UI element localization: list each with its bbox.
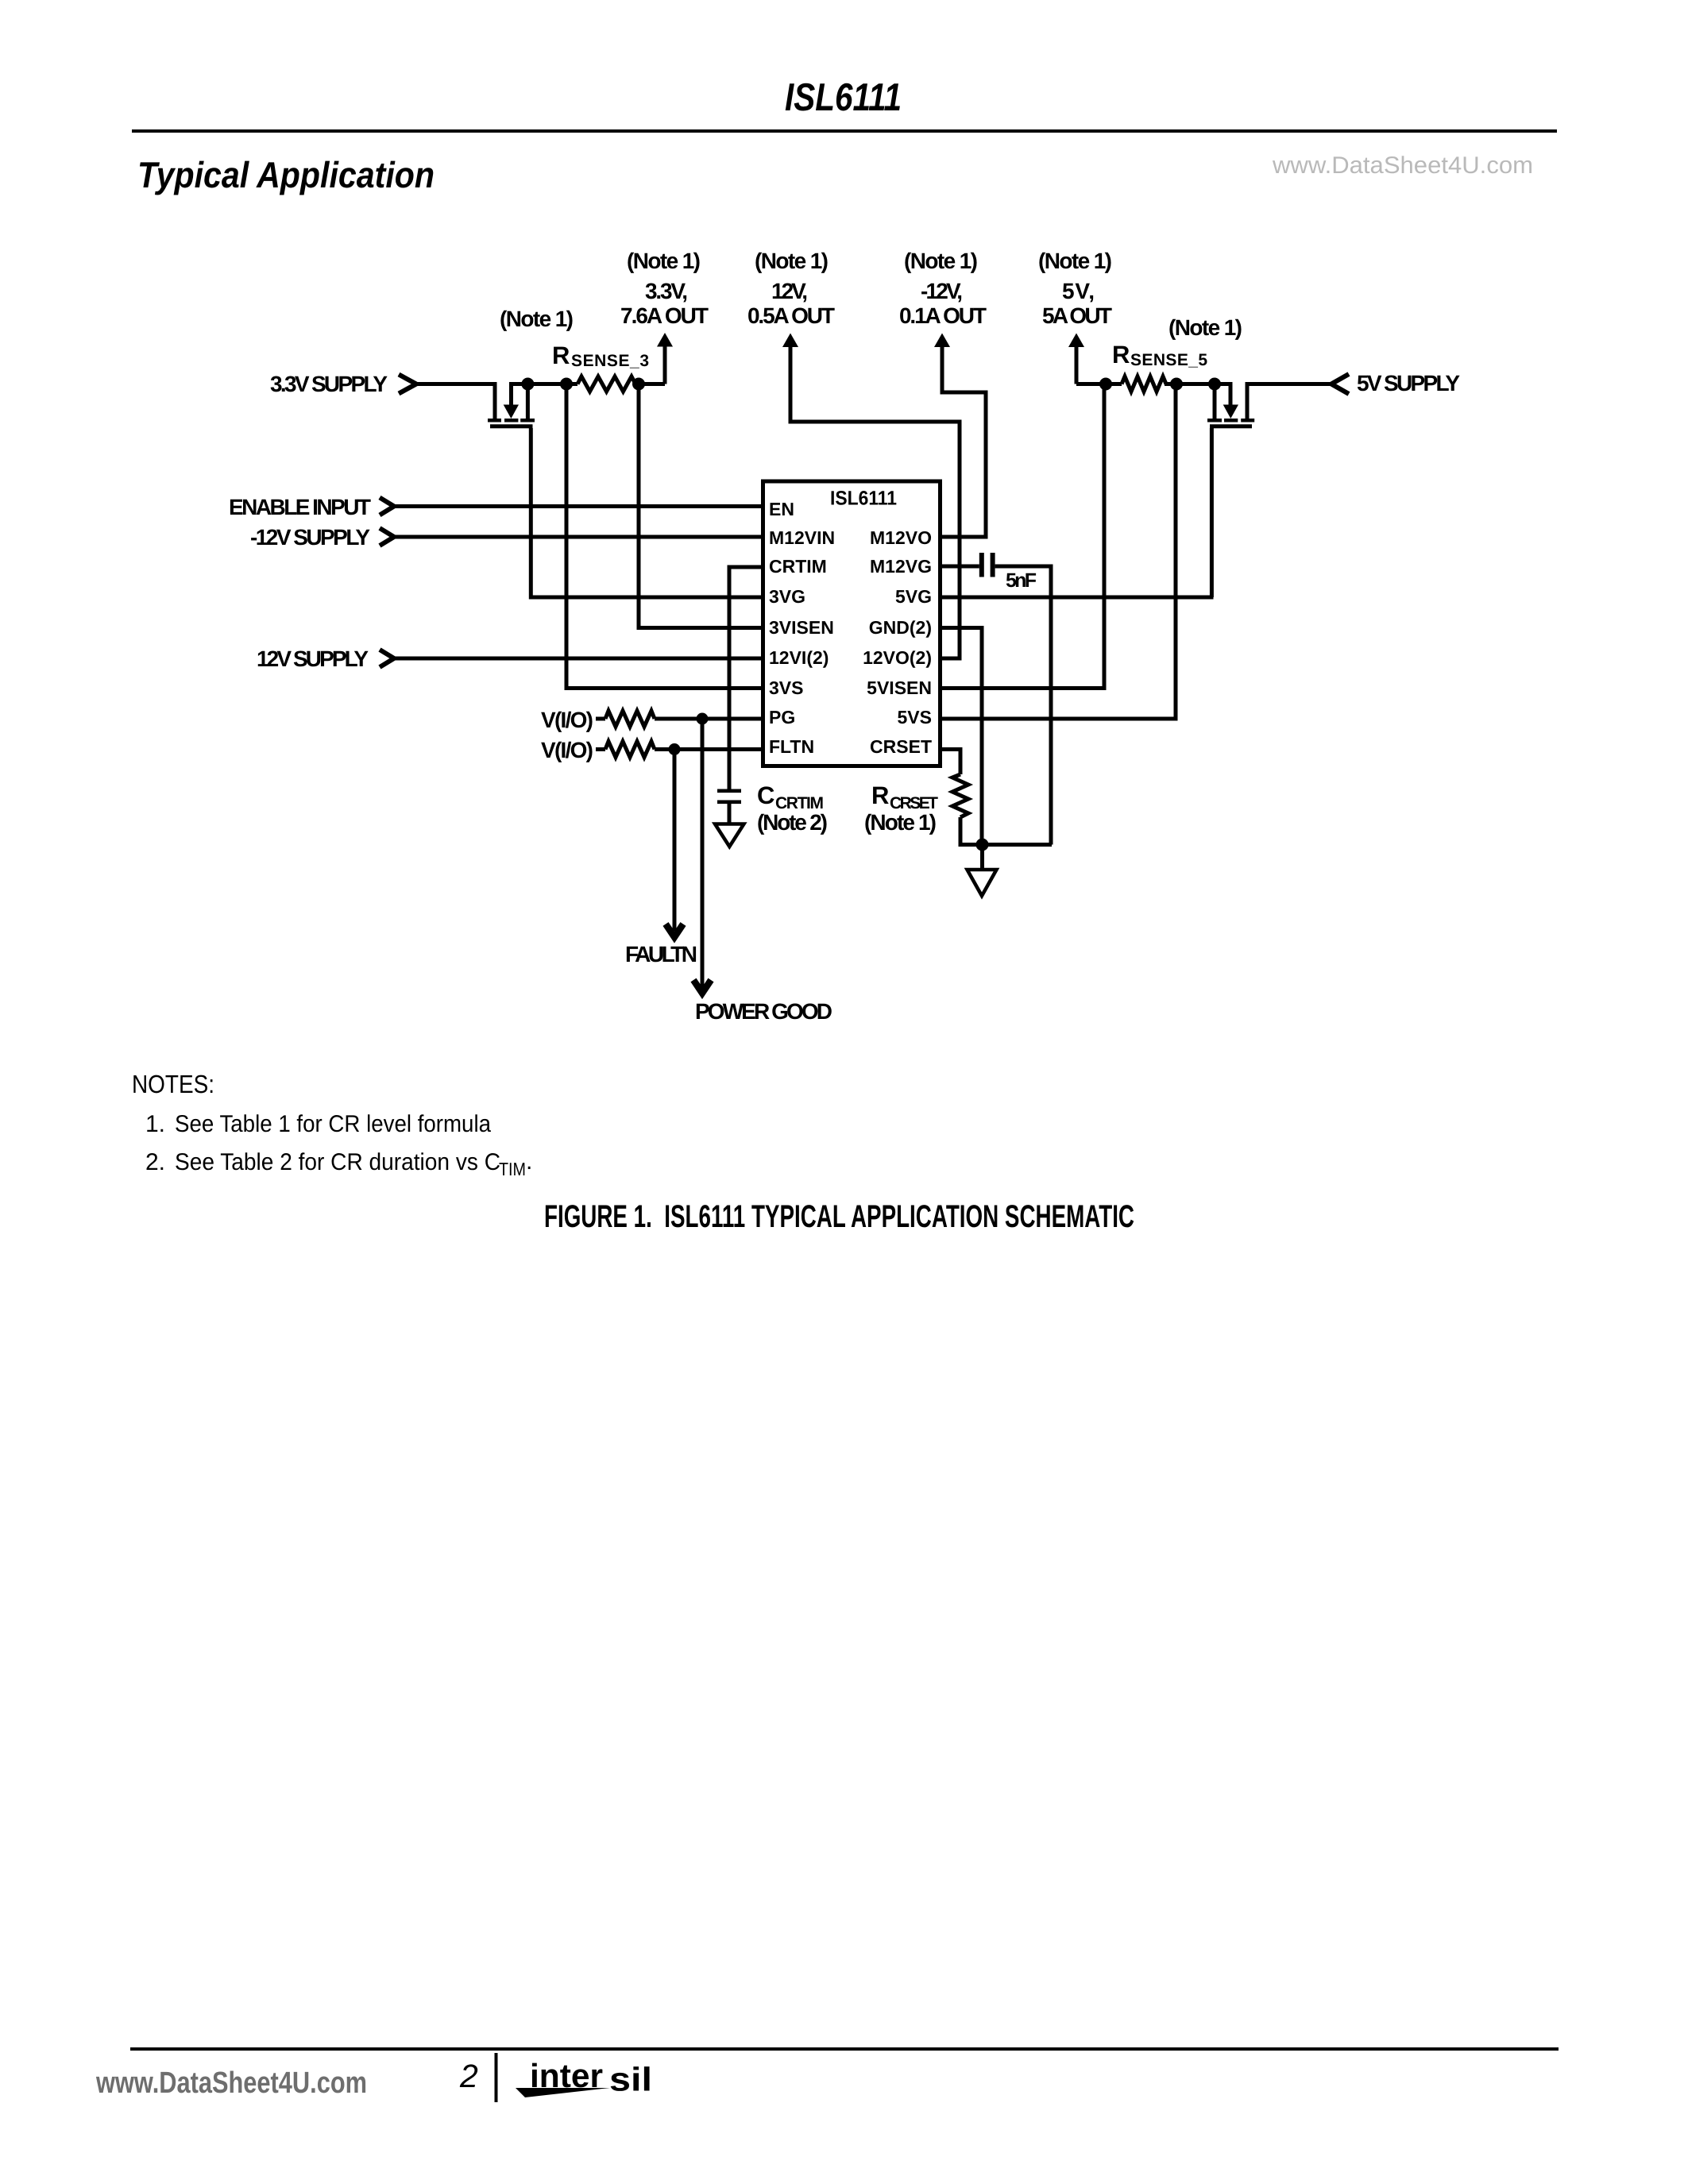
svg-text:SENSE_3: SENSE_3 <box>571 352 649 370</box>
node 3VISEN tap <box>632 378 645 391</box>
svg-text:SENSE_5: SENSE_5 <box>1130 351 1207 369</box>
resistor RSENSE_3 <box>577 376 635 392</box>
ground (main) <box>968 870 997 896</box>
arrow -12V out <box>934 334 950 348</box>
svg-text:(Note 1): (Note 1) <box>1168 315 1242 340</box>
wire M12VO to -12V out <box>942 345 986 537</box>
wire CRTIM to capacitor <box>729 567 761 789</box>
node FLTN <box>669 743 681 755</box>
svg-text:12VI(2): 12VI(2) <box>769 647 829 668</box>
svg-text:See Table 2 for CR duration vs: See Table 2 for CR duration vs C <box>175 1149 500 1175</box>
svg-text:CRTIM: CRTIM <box>769 556 827 577</box>
node ground junction <box>976 839 989 851</box>
intersil logo swoosh <box>516 2088 610 2097</box>
wire 5V out arrow stem <box>1075 345 1079 384</box>
arrow 12V out <box>782 334 798 348</box>
svg-text:5V,: 5V, <box>1062 279 1095 303</box>
wire capacitor to ground <box>728 803 732 823</box>
transistor Q2 source leg <box>1246 382 1250 419</box>
wire RCRSET bottom to ground rail <box>960 817 1052 845</box>
svg-text:(Note 1): (Note 1) <box>627 249 701 273</box>
svg-text:1.: 1. <box>145 1111 165 1137</box>
svg-text:M12VG: M12VG <box>870 556 932 577</box>
node 5VISEN tap <box>1099 378 1112 391</box>
node Q2 drain <box>1208 378 1221 391</box>
IC U1 ISL6111 box <box>763 481 941 766</box>
port -12V SUPPLY chevron <box>380 528 394 546</box>
wire 3VISEN sense <box>639 384 761 628</box>
svg-text:5V SUPPLY: 5V SUPPLY <box>1357 371 1460 396</box>
wire 3VS sense <box>566 384 761 689</box>
header rule <box>132 129 1557 133</box>
svg-text:POWER GOOD: POWER GOOD <box>695 999 832 1024</box>
transistor Q1 substrate arrow <box>509 384 513 407</box>
svg-text:2: 2 <box>459 2058 478 2094</box>
svg-text:5VG: 5VG <box>895 586 932 607</box>
svg-text:www.DataSheet4U.com: www.DataSheet4U.com <box>1272 152 1533 179</box>
svg-text:5nF: 5nF <box>1006 569 1037 592</box>
svg-text:www.DataSheet4U.com: www.DataSheet4U.com <box>95 2066 367 2100</box>
svg-text:sil: sil <box>609 2061 652 2098</box>
port ENABLE INPUT chevron <box>380 498 394 515</box>
wire 5V supply to Q2 source <box>1247 382 1331 386</box>
node Q1 drain <box>521 378 534 391</box>
svg-text:(Note 1): (Note 1) <box>1038 249 1112 273</box>
svg-text:(Note 1): (Note 1) <box>755 249 829 273</box>
arrow 5V out <box>1068 334 1084 348</box>
svg-text:V(I/O): V(I/O) <box>541 738 593 762</box>
resistor PG pull-up <box>605 711 655 727</box>
wire -12V supply to M12VIN <box>394 535 761 539</box>
transistor Q2 substrate arrow <box>1229 384 1233 407</box>
svg-text:7.6A OUT: 7.6A OUT <box>620 303 709 328</box>
svg-text:PG: PG <box>769 707 795 727</box>
wire 5VISEN sense <box>942 384 1104 689</box>
wire M12VG to 5nF cap <box>942 565 979 569</box>
svg-text:ISL6111: ISL6111 <box>785 76 902 119</box>
capacitor 5nF <box>979 553 995 577</box>
svg-text:3VG: 3VG <box>769 586 805 607</box>
wire 5nF cap to ground rail <box>995 566 1051 845</box>
resistor RCRSET <box>952 774 968 817</box>
svg-text:FIGURE 1. ISL6111 TYPICAL APP: FIGURE 1. ISL6111 TYPICAL APPLICATION SC… <box>544 1199 1134 1234</box>
svg-text:12V SUPPLY: 12V SUPPLY <box>257 646 369 671</box>
wire GND(2) down <box>942 628 982 845</box>
svg-text:R: R <box>1112 341 1130 369</box>
svg-text:-12V SUPPLY: -12V SUPPLY <box>250 525 370 550</box>
wire 12VO(2) to 12V out <box>790 345 960 658</box>
svg-text:R: R <box>552 341 570 369</box>
svg-text:ENABLE INPUT: ENABLE INPUT <box>229 495 371 519</box>
svg-text:Typical Application: Typical Application <box>137 154 435 195</box>
svg-text:5VISEN: 5VISEN <box>867 677 932 698</box>
footer rule <box>130 2047 1559 2051</box>
svg-text:V(I/O): V(I/O) <box>541 708 593 732</box>
port 3.3V SUPPLY chevron <box>399 375 416 394</box>
wire ENABLE INPUT to EN <box>394 504 761 508</box>
arrow 3.3V out <box>657 333 673 347</box>
resistor RSENSE_5 <box>1122 376 1166 392</box>
svg-text:(Note 2): (Note 2) <box>757 810 828 835</box>
svg-text:0.1A OUT: 0.1A OUT <box>899 303 987 328</box>
capacitor CCRTIM <box>717 789 741 805</box>
svg-text:3.3V,: 3.3V, <box>645 279 688 303</box>
SCHEMATIC <box>380 333 1349 994</box>
svg-text:5VS: 5VS <box>898 707 932 727</box>
svg-text:R: R <box>871 781 889 809</box>
svg-text:TIM: TIM <box>499 1159 526 1179</box>
svg-text:0.5A OUT: 0.5A OUT <box>747 303 835 328</box>
wire 3.3V out arrow stem <box>663 345 667 384</box>
svg-text:(Note 1): (Note 1) <box>500 307 574 331</box>
transistor Q1 source leg <box>493 382 497 419</box>
ground (CRTIM) <box>715 824 744 847</box>
svg-text:FAULTN: FAULTN <box>625 942 697 967</box>
node 5VS tap <box>1170 378 1183 391</box>
wire FLTN down to FAULTN <box>673 750 677 932</box>
transistor Q2 channel and gate <box>1207 419 1254 428</box>
wire FLTN pull-up left stub <box>596 747 605 751</box>
svg-text:3VS: 3VS <box>769 677 803 698</box>
transistor Q2 drain leg <box>1213 382 1217 419</box>
wire PG down to POWER GOOD <box>701 719 705 987</box>
wire 12V supply to 12VI(2) <box>394 657 761 661</box>
svg-text:-12V,: -12V, <box>921 279 963 303</box>
svg-text:See Table 1 for CR level formu: See Table 1 for CR level formula <box>175 1111 491 1137</box>
wire 3.3V output rail <box>509 382 665 386</box>
svg-text:M12VIN: M12VIN <box>769 527 835 548</box>
svg-text:C: C <box>757 781 774 809</box>
svg-text:12V,: 12V, <box>771 279 808 303</box>
wire resistor to PG pin <box>655 717 761 721</box>
arrow FAULTN <box>666 924 683 938</box>
svg-text:3VISEN: 3VISEN <box>769 617 834 638</box>
svg-text:GND(2): GND(2) <box>869 617 932 638</box>
svg-text:5A OUT: 5A OUT <box>1042 303 1112 328</box>
wire junction to ground symbol <box>980 845 984 869</box>
transistor Q1 drain leg <box>526 382 530 419</box>
wire resistor to FLTN pin <box>655 747 761 751</box>
wire CRSET to resistor <box>942 750 960 775</box>
svg-text:NOTES:: NOTES: <box>132 1070 214 1098</box>
transistor Q1 channel and gate <box>488 419 535 428</box>
port 12V SUPPLY chevron <box>380 650 394 667</box>
svg-text:FLTN: FLTN <box>769 736 814 757</box>
node PG <box>697 713 709 725</box>
svg-text:3.3V SUPPLY: 3.3V SUPPLY <box>270 372 388 396</box>
svg-text:EN: EN <box>769 499 794 519</box>
footer divider line <box>495 2053 498 2102</box>
resistor FLTN pull-up <box>605 742 655 758</box>
svg-text:.: . <box>526 1148 532 1175</box>
svg-text:ISL6111: ISL6111 <box>830 488 897 510</box>
svg-text:12VO(2): 12VO(2) <box>863 647 932 668</box>
svg-text:(Note 1): (Note 1) <box>904 249 978 273</box>
wire Q1 gate to 3VG pin <box>531 428 761 597</box>
wire 5VG to Q2 gate <box>942 428 1214 597</box>
wire 5V output rail <box>1076 382 1233 386</box>
svg-text:M12VO: M12VO <box>870 527 932 548</box>
arrow POWER GOOD <box>693 980 711 994</box>
port 5V SUPPLY chevron <box>1331 374 1349 394</box>
node 3VS tap <box>560 378 573 391</box>
wire 5VS sense <box>942 384 1176 720</box>
wire 3.3V supply to Q1 source <box>416 382 496 386</box>
wire PG pull-up left stub <box>596 717 605 721</box>
svg-text:CRSET: CRSET <box>870 736 932 757</box>
svg-text:(Note 1): (Note 1) <box>864 810 937 835</box>
svg-text:2.: 2. <box>145 1149 165 1175</box>
